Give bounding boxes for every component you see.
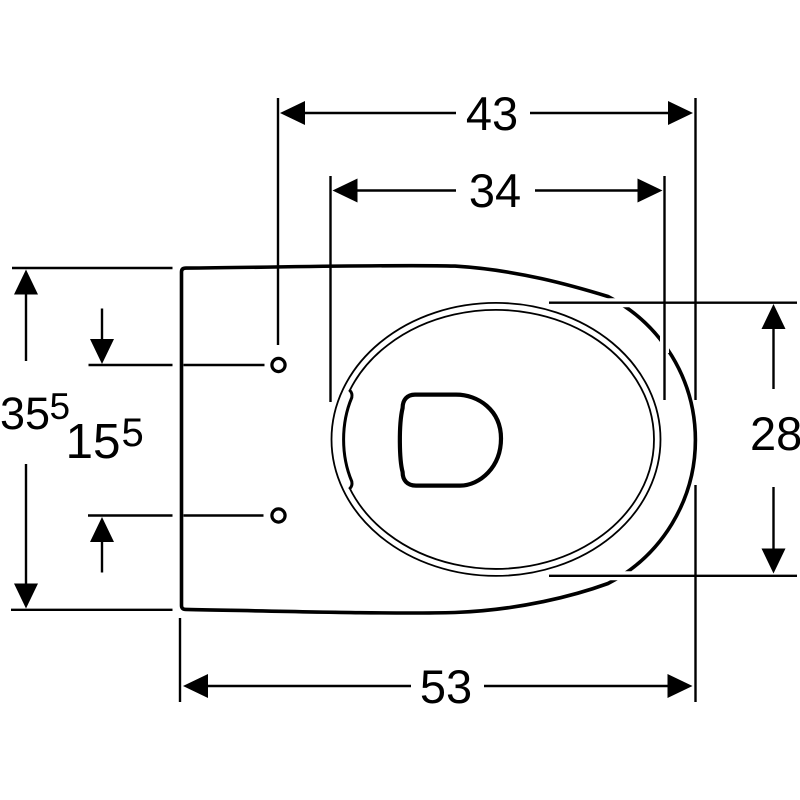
dim 34 line right segment	[535, 189, 641, 191]
dim 34 line left segment	[352, 189, 456, 191]
svg-text:34: 34	[469, 164, 521, 217]
dim 28 top reference line	[549, 302, 797, 304]
dim 28 down arrow shaft	[772, 487, 774, 550]
dim 28 bottom reference line	[549, 575, 797, 577]
seat outer ring ellipse	[332, 303, 661, 576]
dim 53 left extension line	[179, 618, 181, 702]
dim 15.5 lower hole leader line right part	[184, 514, 264, 516]
svg-text:28: 28	[750, 407, 800, 460]
dim 28 down arrowhead	[762, 549, 786, 574]
svg-text:35: 35	[0, 388, 50, 439]
dim 15.5 up arrowhead	[90, 517, 114, 542]
hinge hole lower	[272, 509, 285, 522]
hinge hole upper	[272, 358, 285, 371]
outline white gap at 28 bottom line crossing	[602, 571, 631, 580]
outline white gap at 28 top line crossing	[600, 298, 629, 307]
dim 15.5 lower hole leader line left part	[88, 514, 173, 516]
bowl opening outline	[400, 395, 501, 486]
dim 43 right extension line upper part	[694, 98, 696, 400]
dim 53 line left segment	[203, 685, 411, 687]
dim 34 left arrowhead	[333, 179, 358, 203]
seat inner thick left arc	[344, 390, 352, 489]
dim 43 line left segment	[300, 112, 456, 114]
dim 15.5 upper hole leader line left part	[89, 364, 173, 366]
dim 53 left arrowhead	[183, 674, 208, 698]
dim 35.5 lower arrow shaft	[25, 464, 27, 585]
dim 34 left extension line	[329, 176, 331, 402]
dim 35.5 up arrowhead	[14, 270, 38, 295]
dim 15.5 down arrow shaft	[101, 309, 103, 342]
dim 15.5 up arrow shaft	[101, 540, 103, 573]
svg-text:15: 15	[66, 414, 121, 469]
dim 35.5 down arrowhead	[14, 584, 38, 609]
dim 43 right arrowhead	[668, 101, 693, 125]
dim 34 right arrowhead	[638, 179, 663, 203]
svg-text:53: 53	[420, 660, 472, 713]
dim 35.5 top reference line	[12, 267, 173, 269]
dim 43 left extension line	[277, 98, 279, 345]
dim 35.5 bottom reference line	[11, 609, 173, 611]
dim 53 line right segment	[484, 685, 671, 687]
dim 35.5 upper arrow shaft	[25, 293, 27, 361]
dim 15.5 upper hole leader line right part	[184, 364, 265, 366]
svg-text:5: 5	[122, 411, 144, 455]
dim 15.5 down arrowhead	[90, 339, 114, 364]
seat inner ring ellipse (gap on left side)	[350, 310, 655, 569]
outline white gap at 34 extension line crossing	[660, 334, 669, 353]
dim 28 up arrow shaft	[772, 327, 774, 389]
dim 28 up arrowhead	[762, 304, 786, 329]
dim 43 line right segment	[530, 112, 672, 114]
svg-text:43: 43	[466, 87, 518, 140]
toilet body outline	[182, 266, 696, 613]
dim 34 right extension line	[663, 176, 665, 400]
dim 53 right arrowhead	[668, 674, 693, 698]
dim 43 left arrowhead	[280, 101, 305, 125]
dim 53 right extension line lower part	[694, 485, 696, 702]
